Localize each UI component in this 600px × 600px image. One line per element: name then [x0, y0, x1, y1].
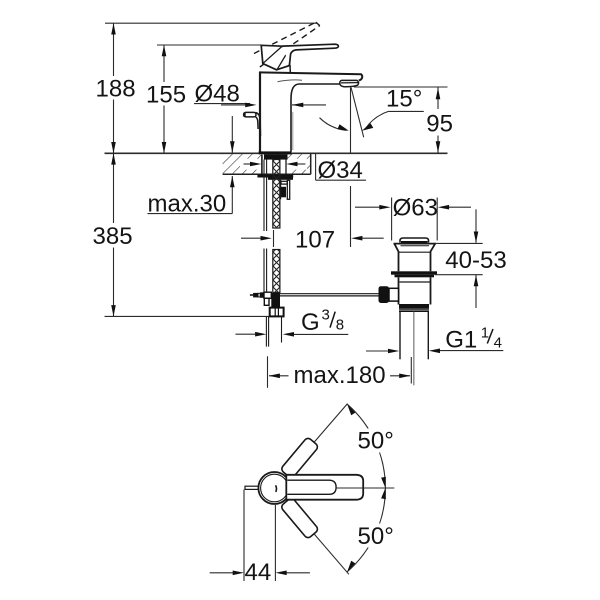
svg-text:44: 44	[245, 559, 272, 586]
svg-text:max.180: max.180	[294, 362, 386, 389]
svg-text:G1: G1	[445, 327, 477, 354]
svg-text:max.30: max.30	[148, 191, 227, 218]
svg-text:Ø63: Ø63	[393, 195, 438, 222]
svg-text:188: 188	[96, 75, 136, 102]
svg-text:1: 1	[481, 325, 489, 342]
svg-text:4: 4	[494, 335, 502, 352]
svg-text:Ø34: Ø34	[318, 157, 363, 184]
svg-text:40-53: 40-53	[445, 247, 506, 274]
svg-text:385: 385	[93, 223, 133, 250]
svg-text:8: 8	[336, 317, 344, 334]
svg-text:50°: 50°	[358, 523, 394, 550]
svg-text:107: 107	[295, 227, 335, 254]
svg-text:Ø48: Ø48	[195, 81, 240, 108]
svg-text:95: 95	[426, 110, 453, 137]
svg-text:155: 155	[146, 82, 186, 109]
svg-text:50°: 50°	[358, 428, 394, 455]
svg-text:15°: 15°	[386, 85, 422, 112]
svg-text:3: 3	[322, 307, 330, 324]
svg-text:G: G	[301, 309, 320, 336]
